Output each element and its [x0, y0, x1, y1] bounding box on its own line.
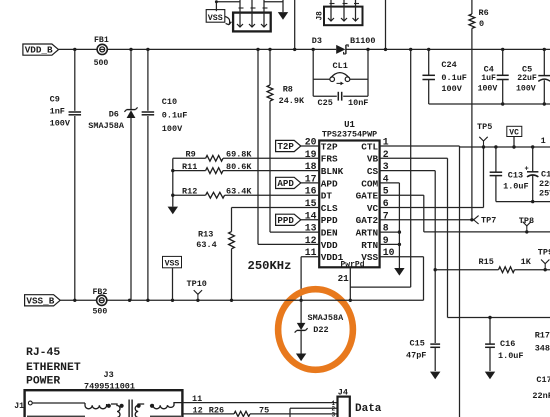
- svg-text:R26: R26: [209, 406, 224, 416]
- ferrite bead FB1: [94, 36, 109, 68]
- wire (lower winding hints): [27, 415, 181, 417]
- wire: [385, 0, 387, 49]
- wire J3 pin 11 to J4 pin 1: [182, 394, 337, 404]
- svg-text:Data: Data: [355, 403, 382, 415]
- net VSS_B: [25, 295, 61, 307]
- svg-text:69.8K: 69.8K: [226, 150, 252, 160]
- svg-text:25V: 25V: [539, 188, 550, 198]
- test point TP5: [477, 122, 492, 147]
- connector J4: [332, 387, 350, 417]
- capacitor C4: [478, 49, 509, 104]
- svg-text:TP10: TP10: [187, 279, 207, 289]
- svg-text:VSS: VSS: [361, 252, 378, 263]
- svg-text:C4: C4: [484, 64, 494, 74]
- resistor R13: [196, 208, 319, 301]
- resistor R15: [435, 257, 550, 273]
- highlight ellipse (orange): [278, 289, 353, 370]
- schottky diode D3 B1100: [312, 36, 376, 54]
- transformer primary winding (left): [85, 403, 124, 417]
- svg-text:100V: 100V: [162, 124, 183, 134]
- wire VDD_B rail (left of D3): [59, 48, 337, 50]
- wire VC (pin 6): [380, 147, 484, 208]
- surge arrester CL1: [313, 49, 368, 96]
- svg-text:SMAJ58A: SMAJ58A: [88, 121, 125, 131]
- wire RTN (pin 9): [380, 243, 400, 245]
- net flag APD: [276, 177, 320, 189]
- test point TP9: [538, 248, 550, 270]
- svg-text:R8: R8: [283, 84, 293, 94]
- svg-text:0.1uF: 0.1uF: [162, 110, 188, 120]
- svg-text:1.0uF: 1.0uF: [503, 182, 529, 192]
- diode (in array) 3: [261, 0, 268, 27]
- svg-text:C17: C17: [536, 375, 550, 385]
- power label VSS (top left, cut off): [206, 10, 231, 25]
- diode (J8) 2: [341, 0, 348, 21]
- svg-text:VDD: VDD: [321, 240, 338, 251]
- svg-text:VDD_B: VDD_B: [25, 45, 53, 56]
- wire (VDD rail to PwrPd): [350, 49, 410, 287]
- svg-text:TPS23754PWP: TPS23754PWP: [322, 130, 377, 140]
- net VDD_B: [23, 44, 59, 56]
- svg-text:12: 12: [305, 235, 317, 246]
- svg-text:C9: C9: [50, 94, 60, 104]
- capacitor C24: [422, 49, 466, 104]
- svg-text:21: 21: [338, 273, 350, 284]
- connector J1 pin: [14, 401, 85, 411]
- svg-text:ARTN: ARTN: [356, 228, 379, 239]
- net flag PPD: [276, 214, 320, 226]
- svg-text:C24: C24: [441, 60, 456, 70]
- svg-text:22uF: 22uF: [517, 74, 537, 83]
- svg-text:C14: C14: [541, 170, 550, 180]
- svg-text:VSS: VSS: [165, 259, 180, 268]
- power label VC: [507, 126, 522, 147]
- svg-text:CLS: CLS: [321, 203, 338, 214]
- connector J3 7499511001: [25, 370, 183, 417]
- resistor R12: [173, 186, 319, 198]
- ground arrow (top): [278, 0, 288, 20]
- op-amp U1 TPS23754PWP (PoE controller IC): [305, 120, 395, 270]
- svg-text:RTN: RTN: [361, 240, 378, 251]
- capacitor C17 (clipped): [532, 375, 550, 401]
- svg-text:T2P: T2P: [277, 141, 294, 152]
- diode array box (top, cut off): [233, 13, 271, 32]
- wire bottom rail (C24/C4/C5): [429, 102, 550, 105]
- test point TP8: [519, 216, 534, 232]
- wire: [215, 0, 240, 11]
- resistor R6: [469, 0, 489, 220]
- svg-text:PPD: PPD: [277, 215, 294, 226]
- capacitor C5 (polarized): [516, 49, 550, 104]
- wire VDD_B rail (right of D3): [346, 48, 550, 50]
- ground arrow (divider): [168, 207, 178, 215]
- svg-text:10nF: 10nF: [348, 98, 368, 108]
- svg-text:348: 348: [535, 344, 550, 354]
- junction dots on VDD rail: [73, 48, 546, 51]
- capacitor C13: [490, 147, 529, 202]
- svg-text:47pF: 47pF: [406, 351, 426, 361]
- diode (in array) 2: [249, 0, 256, 27]
- svg-text:POWER: POWER: [26, 376, 60, 388]
- svg-text:24.9K: 24.9K: [279, 96, 305, 106]
- svg-text:GATE: GATE: [356, 191, 379, 202]
- power label VSS (middle): [163, 256, 182, 300]
- svg-text:APD: APD: [277, 178, 294, 189]
- svg-text:R12: R12: [182, 186, 197, 196]
- svg-text:1uF: 1uF: [481, 74, 496, 83]
- wire CS (pin 3): [380, 171, 437, 343]
- wire COM (pin 4): [380, 183, 401, 268]
- svg-text:250KHz: 250KHz: [248, 259, 292, 273]
- ground arrow (D22): [296, 354, 306, 362]
- svg-text:SMAJ58A: SMAJ58A: [308, 313, 345, 323]
- wire GAT2 (pin 7) to TP7: [380, 218, 474, 221]
- svg-text:R15: R15: [479, 257, 494, 267]
- capacitor C9: [50, 49, 81, 300]
- svg-text:C13: C13: [508, 171, 523, 181]
- capacitor C15: [406, 339, 440, 372]
- svg-text:FB1: FB1: [94, 36, 109, 45]
- svg-text:DEN: DEN: [321, 228, 338, 239]
- capacitor C10: [142, 49, 188, 300]
- svg-text:C10: C10: [162, 97, 177, 107]
- wire VSS_B bus: [60, 299, 423, 301]
- svg-text:J1: J1: [14, 402, 24, 411]
- resistor R9: [173, 150, 319, 162]
- wire VDD1 (pin 11): [299, 257, 319, 302]
- svg-text:22nF: 22nF: [532, 391, 550, 401]
- svg-text:BLNK: BLNK: [321, 166, 344, 177]
- svg-text:CTL: CTL: [361, 141, 378, 152]
- label pin 1 (T1, cut off): [541, 136, 546, 146]
- svg-text:T2P: T2P: [321, 141, 338, 152]
- wire VDD (pin 12): [258, 49, 319, 244]
- TVS diode D22 SMAJ58A: [295, 300, 345, 353]
- svg-text:0: 0: [479, 19, 484, 29]
- wire J4 pin 2: [290, 408, 338, 417]
- svg-text:80.6K: 80.6K: [226, 162, 252, 172]
- svg-text:COM: COM: [361, 178, 378, 189]
- svg-text:R13: R13: [198, 230, 213, 240]
- svg-text:B1100: B1100: [350, 36, 376, 46]
- svg-text:63.4K: 63.4K: [226, 186, 252, 196]
- wire GATE (pin 5): [380, 195, 550, 233]
- ground arrow (C16): [485, 372, 495, 380]
- svg-text:ETHERNET: ETHERNET: [26, 362, 81, 374]
- svg-text:RJ-45: RJ-45: [26, 347, 60, 359]
- svg-text:1.0uF: 1.0uF: [498, 351, 524, 361]
- svg-text:TP7: TP7: [481, 216, 496, 226]
- wire VC rail: [460, 145, 550, 148]
- ground arrow (C15): [430, 372, 440, 380]
- svg-text:C5: C5: [522, 64, 532, 74]
- diode (in array) 1: [237, 0, 244, 27]
- label 250KHz: [248, 259, 292, 273]
- wire divider common: [171, 158, 174, 206]
- svg-text:1: 1: [541, 136, 546, 146]
- wire CTL (pin 1): [380, 146, 460, 417]
- svg-text:1K: 1K: [521, 257, 532, 267]
- svg-text:VSS_B: VSS_B: [26, 295, 54, 306]
- svg-text:13: 13: [305, 223, 317, 234]
- svg-text:APD: APD: [321, 178, 338, 189]
- svg-text:D3: D3: [312, 36, 322, 46]
- svg-text:TP8: TP8: [519, 216, 534, 226]
- svg-text:J8: J8: [317, 11, 325, 21]
- svg-text:100V: 100V: [50, 118, 71, 128]
- svg-text:TP9: TP9: [538, 248, 550, 258]
- svg-text:3: 3: [332, 411, 336, 417]
- diode (J8) 3: [353, 0, 360, 21]
- svg-text:C15: C15: [410, 339, 425, 349]
- svg-text:VSS: VSS: [208, 14, 223, 23]
- resistor R17 (clipped): [535, 331, 550, 354]
- svg-text:100V: 100V: [441, 84, 462, 94]
- transformer secondary winding (right): [135, 403, 182, 417]
- svg-text:C25: C25: [318, 98, 333, 108]
- svg-text:D6: D6: [109, 110, 119, 120]
- transformer core: [129, 400, 132, 417]
- resistor R11: [173, 162, 319, 174]
- svg-text:12: 12: [193, 406, 203, 416]
- wire VSS (pin 10): [380, 257, 424, 301]
- svg-text:VB: VB: [367, 154, 379, 165]
- wire: [264, 1, 283, 3]
- capacitor C14 (polarized, clipped): [525, 147, 550, 202]
- svg-text:D22: D22: [313, 325, 328, 335]
- test point TP10: [187, 279, 207, 300]
- svg-text:R17: R17: [535, 331, 550, 341]
- label Data: [355, 403, 382, 415]
- svg-text:TP5: TP5: [477, 122, 492, 132]
- svg-text:100V: 100V: [478, 85, 498, 94]
- svg-text:11: 11: [192, 394, 202, 404]
- wire VB (pin 2): [380, 158, 550, 319]
- svg-text:75: 75: [259, 406, 269, 416]
- svg-text:500: 500: [94, 59, 109, 68]
- resistor R8: [267, 49, 319, 232]
- svg-text:100V: 100V: [516, 85, 536, 94]
- label RJ-45 ETHERNET POWER: [26, 347, 81, 388]
- ground arrow (COM): [394, 268, 404, 276]
- svg-text:VC: VC: [509, 129, 519, 138]
- svg-text:+: +: [525, 165, 529, 173]
- svg-text:CS: CS: [367, 166, 379, 177]
- test point TP7: [474, 216, 497, 226]
- svg-text:U1: U1: [344, 120, 355, 130]
- ferrite bead FB2: [93, 288, 108, 317]
- svg-text:R9: R9: [186, 150, 196, 160]
- wire C13/C14 bottom rail: [496, 200, 550, 203]
- wire PwrPd pin 21: [349, 267, 352, 302]
- capacitor C16: [485, 318, 523, 372]
- wire ARTN (pin 8): [380, 231, 400, 233]
- diode (J8) 1: [328, 0, 335, 21]
- svg-text:R6: R6: [479, 8, 489, 18]
- svg-text:GAT2: GAT2: [356, 215, 379, 226]
- junction dots on VSS_B bus: [73, 299, 233, 302]
- TVS diode D6 SMAJ58A: [88, 49, 137, 300]
- svg-text:CL1: CL1: [333, 61, 348, 71]
- svg-text:J3: J3: [104, 370, 114, 380]
- svg-text:C16: C16: [500, 339, 515, 349]
- svg-text:VC: VC: [367, 203, 379, 214]
- svg-text:0.1uF: 0.1uF: [441, 73, 467, 83]
- wire: [294, 0, 296, 49]
- svg-text:R11: R11: [182, 162, 197, 172]
- svg-text:500: 500: [93, 307, 108, 316]
- resistor R26 75: [182, 406, 337, 417]
- svg-text:FRS: FRS: [321, 154, 338, 165]
- svg-text:VDD1: VDD1: [321, 252, 344, 263]
- pin 21 label: [338, 273, 350, 284]
- net flag T2P: [276, 140, 320, 152]
- svg-text:63.4: 63.4: [196, 240, 216, 250]
- svg-text:FB2: FB2: [93, 288, 108, 297]
- capacitor C25: [313, 92, 368, 108]
- svg-text:DT: DT: [321, 191, 333, 202]
- svg-text:PPD: PPD: [321, 215, 338, 226]
- connector J8: [317, 7, 363, 26]
- svg-text:1nF: 1nF: [50, 107, 65, 117]
